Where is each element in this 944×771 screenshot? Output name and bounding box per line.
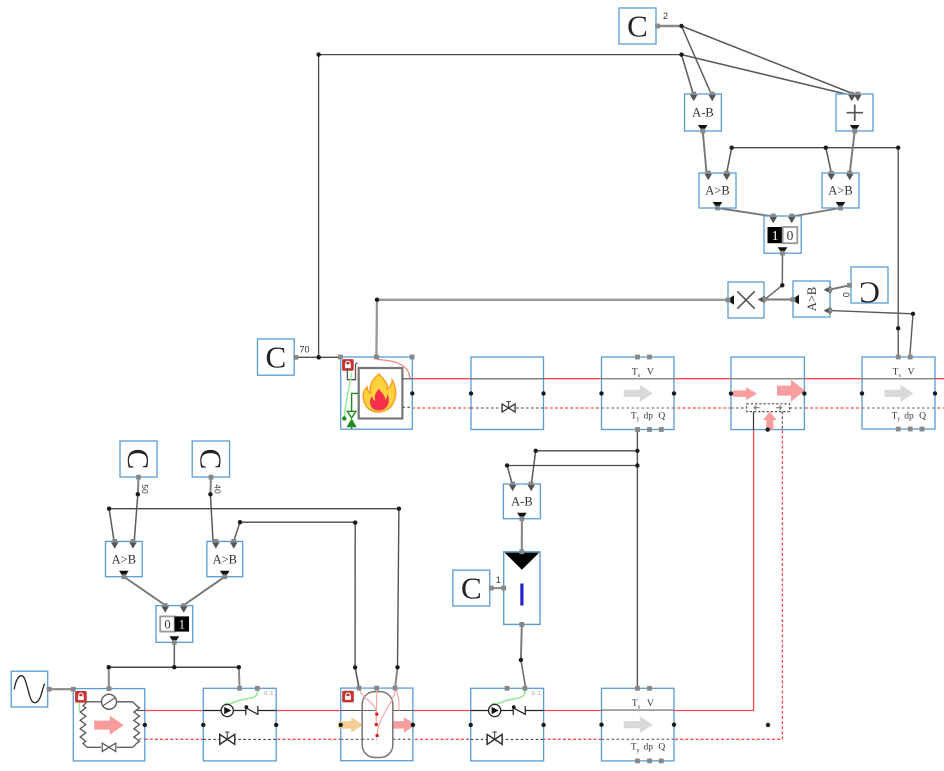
svg-text:y: y xyxy=(897,417,900,423)
svg-text:Q: Q xyxy=(658,743,665,753)
svg-text:C: C xyxy=(627,9,648,44)
svg-text:0: 0 xyxy=(841,292,851,297)
svg-text:A>B: A>B xyxy=(828,184,852,198)
svg-text:40: 40 xyxy=(213,484,223,494)
svg-text:0..1: 0..1 xyxy=(532,691,541,697)
svg-text:C: C xyxy=(461,571,482,606)
svg-text:0..1: 0..1 xyxy=(264,691,273,697)
svg-text:0: 0 xyxy=(787,228,794,243)
svg-text:y: y xyxy=(637,748,640,754)
svg-text:1: 1 xyxy=(772,228,779,243)
svg-text:A>B: A>B xyxy=(213,552,237,566)
svg-text:2: 2 xyxy=(663,11,668,21)
svg-text:dp: dp xyxy=(644,743,654,753)
svg-text:C: C xyxy=(266,340,287,375)
svg-text:A-B: A-B xyxy=(511,495,533,509)
svg-text:1: 1 xyxy=(179,618,185,632)
svg-text:A>B: A>B xyxy=(705,184,729,198)
svg-text:C: C xyxy=(193,449,228,470)
svg-text:A>B: A>B xyxy=(112,552,136,566)
svg-text:C: C xyxy=(859,276,880,311)
svg-text:V: V xyxy=(647,699,654,709)
svg-text:70: 70 xyxy=(300,345,310,355)
svg-text:V: V xyxy=(908,368,915,378)
svg-text:Q: Q xyxy=(919,411,926,421)
svg-text:dp: dp xyxy=(904,411,914,421)
svg-text:A>B: A>B xyxy=(805,287,819,311)
svg-text:1: 1 xyxy=(496,575,501,585)
svg-text:dp: dp xyxy=(644,411,654,421)
svg-text:C: C xyxy=(121,449,156,470)
svg-text:A-B: A-B xyxy=(692,106,714,120)
svg-text:0: 0 xyxy=(164,618,170,632)
svg-text:V: V xyxy=(647,368,654,378)
svg-text:y: y xyxy=(637,417,640,423)
svg-text:50: 50 xyxy=(140,484,150,494)
svg-text:Q: Q xyxy=(658,411,665,421)
